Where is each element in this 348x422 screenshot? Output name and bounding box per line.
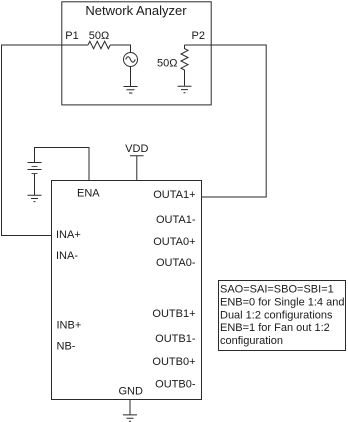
- svg-text:INA-: INA-: [56, 250, 78, 262]
- svg-text:ENA: ENA: [77, 188, 100, 200]
- svg-text:INB+: INB+: [57, 320, 82, 332]
- svg-text:Dual 1:2 configurations: Dual 1:2 configurations: [220, 309, 333, 321]
- svg-text:ENB=1 for Fan out 1:2: ENB=1 for Fan out 1:2: [220, 322, 330, 334]
- svg-text:P2: P2: [192, 30, 205, 42]
- svg-text:50Ω: 50Ω: [157, 58, 177, 70]
- svg-text:VDD: VDD: [125, 143, 148, 155]
- svg-text:Network Analyzer: Network Analyzer: [85, 3, 187, 18]
- svg-text:OUTA0-: OUTA0-: [156, 257, 196, 269]
- svg-text:OUTB1+: OUTB1+: [152, 308, 195, 320]
- svg-text:SAO=SAI=SBO=SBI=1: SAO=SAI=SBO=SBI=1: [220, 284, 334, 296]
- svg-text:50Ω: 50Ω: [89, 30, 109, 42]
- svg-text:ENB=0 for Single 1:4 and: ENB=0 for Single 1:4 and: [220, 297, 344, 309]
- svg-text:OUTB1-: OUTB1-: [155, 333, 196, 345]
- svg-text:configuration: configuration: [220, 335, 283, 347]
- svg-text:OUTB0-: OUTB0-: [155, 379, 196, 391]
- svg-text:P1: P1: [65, 30, 78, 42]
- svg-text:OUTA0+: OUTA0+: [153, 236, 195, 248]
- svg-text:INA+: INA+: [56, 229, 81, 241]
- svg-text:OUTA1+: OUTA1+: [153, 189, 195, 201]
- svg-text:OUTA1-: OUTA1-: [156, 214, 196, 226]
- svg-text:NB-: NB-: [57, 341, 76, 353]
- svg-text:GND: GND: [118, 386, 143, 398]
- svg-text:OUTB0+: OUTB0+: [152, 356, 195, 368]
